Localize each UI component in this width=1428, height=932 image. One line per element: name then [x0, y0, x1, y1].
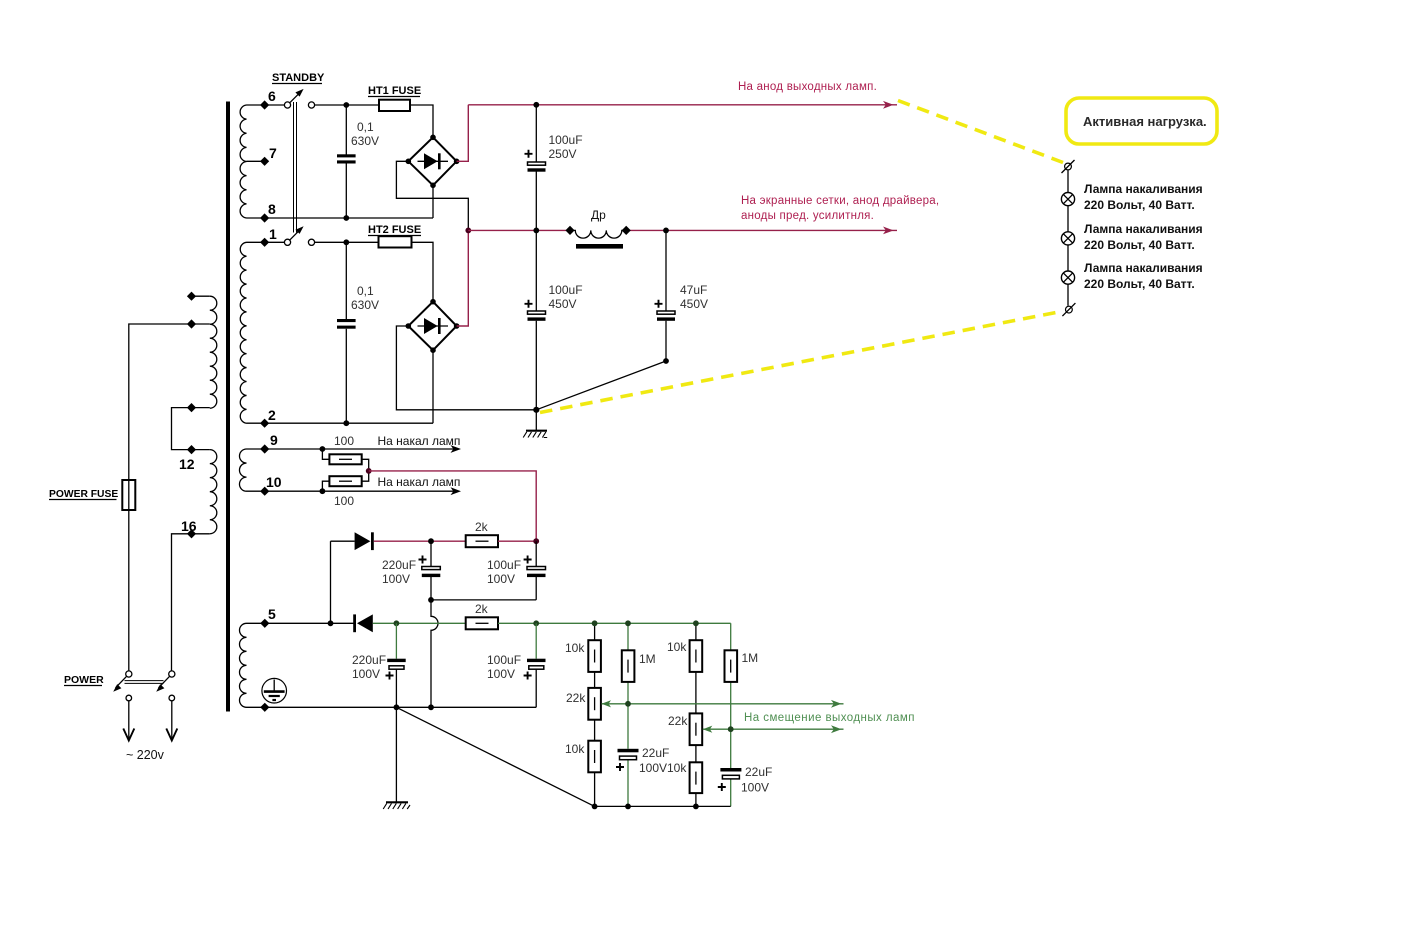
svg-text:22uF: 22uF: [642, 746, 669, 760]
resistor 2k #2: [466, 617, 498, 629]
bridge rectifier BR1: [408, 137, 456, 185]
capacitor 220uF 100V #1: [430, 541, 432, 600]
diode D2 bias rectifier (points left): [353, 614, 356, 632]
svg-text:На экранные сетки, анод драйве: На экранные сетки, анод драйвера,: [741, 195, 939, 207]
svg-text:~ 220v: ~ 220v: [126, 748, 165, 762]
svg-text:220uF: 220uF: [352, 653, 386, 667]
svg-text:10k: 10k: [667, 640, 687, 654]
svg-text:На накал ламп: На накал ламп: [378, 475, 461, 489]
svg-text:100V: 100V: [382, 572, 410, 586]
svg-text:5: 5: [268, 606, 276, 622]
wire D1 cathode to 2k (red): [374, 540, 466, 542]
node 220uF#1 top junction: [428, 538, 434, 544]
svg-text:10k: 10k: [565, 742, 585, 756]
node pin9 resistor junction: [320, 446, 326, 452]
svg-text:7: 7: [269, 145, 277, 161]
resistor 2k #1: [466, 535, 498, 547]
transformer heater winding 9-10: [239, 449, 246, 491]
svg-text:100V: 100V: [352, 667, 380, 681]
wire wiper 1 bias output (green): [602, 703, 844, 705]
svg-text:100V: 100V: [741, 781, 769, 795]
svg-text:6: 6: [268, 88, 276, 104]
lamp L1 220V 40W: [1061, 193, 1074, 206]
wire bias divider column C links: [695, 623, 697, 806]
node bus 2 left junction: [465, 228, 471, 234]
switch POWER lever 1: [116, 676, 127, 688]
wire HT bus 2 screen-grid supply (red): [468, 229, 897, 231]
svg-text:HT1 FUSE: HT1 FUSE: [368, 85, 421, 97]
node 220uF#2 junction (green): [394, 620, 400, 626]
svg-text:100V: 100V: [487, 572, 515, 586]
capacitor 100uF 100V #2: [535, 623, 537, 658]
resistor 10k #1: [588, 640, 601, 672]
wire wiper 2 bias output (green): [703, 728, 844, 730]
svg-text:2k: 2k: [475, 520, 489, 534]
node negative link junction: [428, 597, 434, 603]
wire diagonal ground to bias bottom rail: [396, 707, 594, 806]
svg-text:0,1: 0,1: [357, 284, 374, 298]
svg-text:Др: Др: [591, 208, 606, 222]
node pin 9 diamond: [260, 444, 269, 453]
wire pin 6 to standby switch: [247, 104, 285, 106]
node junction 0.1uF cap 1 top: [343, 102, 349, 108]
wire bridge 1 minus wrap to bus2 node: [396, 161, 468, 230]
wire bias rail green right part: [498, 622, 731, 624]
switch STANDBY mechanical link: [294, 102, 297, 233]
svg-text:12: 12: [179, 456, 195, 472]
node bottom rail colA: [592, 804, 598, 810]
resistor 10k #3: [588, 741, 601, 773]
wire bridge 2 minus wrap to ground node: [396, 326, 536, 410]
node diamond tap lower 12: [187, 445, 196, 454]
wire pin 7 stub: [247, 160, 265, 162]
wire HT1 fuse to bridge 1 top: [410, 105, 433, 137]
capacitor 100uF 250V: [535, 105, 537, 231]
terminal lamp chain top: [1065, 163, 1072, 170]
node pin10 resistor junction: [320, 488, 326, 494]
wire pin 5 row: [247, 622, 354, 624]
node pin 2 diamond: [260, 419, 269, 428]
fuse POWER FUSE: [122, 480, 135, 510]
terminal lamp chain bottom: [1066, 306, 1073, 313]
resistor 10k #4: [690, 762, 703, 793]
svg-text:0,1: 0,1: [357, 120, 374, 134]
svg-text:220 Вольт, 40 Ватт.: 220 Вольт, 40 Ватт.: [1084, 238, 1195, 252]
inductor Dr choke: [570, 230, 626, 238]
node junction 0.1uF cap 2 top: [343, 239, 349, 245]
wire cap negative column with hop over rail: [431, 600, 438, 707]
wire heater dc feed (red): [369, 471, 537, 541]
fuse HT1 FUSE: [379, 100, 410, 111]
svg-text:1M: 1M: [639, 652, 656, 666]
wire primary jog tap 12: [172, 408, 210, 450]
wire pin 10 row with arrow (heater): [247, 490, 456, 492]
node rail colA junction (green): [592, 620, 598, 626]
svg-text:Лампа накаливания: Лампа накаливания: [1084, 261, 1203, 275]
wire pin 1 to standby pole 2: [247, 241, 285, 243]
svg-text:100uF: 100uF: [487, 558, 521, 572]
wire bias divider column A links: [594, 623, 596, 806]
node rail colC junction (green): [693, 620, 699, 626]
wire bias rail green left part: [373, 622, 466, 624]
node pin 6 diamond: [260, 100, 269, 109]
svg-text:Лампа накаливания: Лампа накаливания: [1084, 222, 1203, 236]
switch STANDBY pole 2 lever: [290, 230, 301, 241]
wire 1M #2 column (green): [730, 623, 732, 806]
svg-text:16: 16: [181, 518, 197, 534]
capacitor 0.1uF 630V #2: [345, 242, 347, 423]
node bus2 47uF junction: [663, 228, 669, 234]
node heater dc feed junction (red): [366, 468, 372, 474]
wire yellow dashed link top: [898, 101, 1063, 163]
wire bridge 1 plus to HT bus 1 (red): [457, 105, 469, 162]
capacitor 100uF 450V: [535, 230, 537, 409]
svg-text:100uF: 100uF: [549, 133, 583, 147]
potentiometer 22k #2: [690, 713, 703, 745]
node junction 0.1uF cap 1 bottom: [343, 215, 349, 221]
wire primary top stub tap: [192, 295, 210, 297]
resistor 100 #2: [322, 471, 368, 491]
svg-text:220 Вольт, 40 Ватт.: 220 Вольт, 40 Ватт.: [1084, 198, 1195, 212]
svg-text:100: 100: [334, 434, 354, 448]
switch STANDBY pole 2 contact a: [284, 239, 290, 245]
wire standby pole1 to cap and HT1 fuse: [315, 104, 379, 106]
wire negative link row: [431, 599, 536, 601]
node bus2 100uF450V junction: [533, 228, 539, 234]
svg-text:220 Вольт, 40 Ватт.: 220 Вольт, 40 Ватт.: [1084, 277, 1195, 291]
resistor 1M #1: [622, 650, 635, 682]
transformer secondary winding 1-2: [240, 242, 246, 423]
resistor 10k #2: [690, 640, 703, 672]
node bottom rail colB: [625, 804, 631, 810]
node rail colB junction (green): [625, 620, 631, 626]
terminal mains input 1: [126, 695, 132, 701]
switch POWER pole 2 contact: [169, 671, 175, 677]
svg-text:10k: 10k: [565, 641, 585, 655]
switch POWER mechanical link: [125, 681, 164, 684]
wire yellow dashed link bottom: [540, 312, 1061, 413]
transformer secondary winding 6-7-8: [240, 105, 246, 218]
wire bridge 1 bottom to pin 8 row: [432, 185, 434, 218]
capacitor 220uF 100V #2: [395, 623, 397, 658]
switch POWER lever 2: [159, 676, 170, 688]
node diamond tap 16: [187, 529, 196, 538]
node 100uF#1 top junction (red): [533, 538, 539, 544]
transformer bias winding 5: [240, 623, 247, 707]
wire primary bottom tap 16 to power switch: [172, 534, 210, 674]
resistor 1M #2: [725, 650, 738, 682]
svg-text:220uF: 220uF: [382, 558, 416, 572]
lamp L2 220V 40W: [1061, 232, 1074, 245]
ground GND2 column: [395, 707, 397, 801]
node junction cap2 bottom: [343, 420, 349, 426]
node rail 100uF#2 junction (green): [533, 620, 539, 626]
label box Активная нагрузка: [1066, 98, 1217, 144]
svg-text:22k: 22k: [566, 691, 586, 705]
node pin 1 diamond: [260, 238, 269, 247]
wire bias bottom rail: [595, 805, 731, 807]
svg-text:22uF: 22uF: [745, 765, 772, 779]
node pin 8 diamond: [260, 213, 269, 222]
svg-text:8: 8: [268, 201, 276, 217]
node pin 5 diamond: [260, 619, 269, 628]
node bottom rail colC: [693, 804, 699, 810]
wire 2k#1 to cap junction (red): [498, 540, 536, 542]
svg-text:47uF: 47uF: [680, 283, 707, 297]
fuse HT2 FUSE: [379, 236, 412, 247]
lamp L3 220V 40W: [1061, 271, 1074, 284]
node 220uF#2 bottom junction: [394, 704, 400, 710]
svg-text:100V: 100V: [639, 761, 667, 775]
switch STANDBY pole 1 contact a: [284, 102, 290, 108]
resistor 100 #1: [322, 449, 368, 471]
capacitor 100uF 100V #1: [535, 541, 537, 600]
wire lamp chain: [1067, 170, 1069, 305]
node bus1 cap junction: [533, 102, 539, 108]
wire pin 8 row: [247, 217, 434, 219]
wire pin 9 row with arrow (heater): [247, 448, 456, 450]
svg-text:630V: 630V: [351, 134, 379, 148]
earth chassis symbol in circle: [262, 678, 287, 703]
node diamond tap upper 12: [187, 403, 196, 412]
node primary top stub diamond: [187, 292, 196, 301]
ground GND1: [535, 410, 537, 430]
svg-text:аноды пред. усилитнля.: аноды пред. усилитнля.: [741, 210, 874, 222]
capacitor 47uF 450V: [665, 230, 667, 361]
node bottom diamond: [260, 703, 269, 712]
wire D1 anode riser: [330, 541, 332, 623]
svg-text:250V: 250V: [549, 147, 577, 161]
transformer primary winding section 2: [210, 450, 217, 534]
svg-text:10k: 10k: [667, 761, 687, 775]
potentiometer 22k #1: [588, 688, 601, 720]
wire 1M #1 column (green): [627, 623, 629, 806]
svg-text:1: 1: [269, 226, 277, 242]
node D1 anode junction: [328, 620, 334, 626]
svg-text:100uF: 100uF: [549, 283, 583, 297]
svg-text:HT2 FUSE: HT2 FUSE: [368, 224, 421, 236]
capacitor 22uF 100V #1: [618, 749, 639, 753]
svg-text:630V: 630V: [351, 298, 379, 312]
node pin 10 diamond: [260, 487, 269, 496]
wire bridge 2 plus riser to bus 2 (red): [457, 230, 469, 326]
svg-text:POWER FUSE: POWER FUSE: [49, 489, 118, 500]
capacitor 22uF 100V #2: [720, 768, 741, 772]
svg-text:100uF: 100uF: [487, 653, 521, 667]
terminal mains input 2: [169, 695, 175, 701]
svg-text:2: 2: [268, 407, 276, 423]
svg-text:На смещение выходных ламп: На смещение выходных ламп: [744, 712, 915, 724]
wire standby pole2 to cap 2 and HT2 fuse: [315, 241, 379, 243]
wire HT bus 1 anode supply (red): [468, 104, 897, 106]
svg-text:450V: 450V: [549, 297, 577, 311]
bridge rectifier BR2: [408, 302, 456, 351]
svg-text:100V: 100V: [487, 667, 515, 681]
svg-text:2k: 2k: [475, 602, 489, 616]
svg-text:STANDBY: STANDBY: [272, 72, 325, 84]
svg-text:450V: 450V: [680, 297, 708, 311]
svg-text:10: 10: [266, 474, 282, 490]
switch STANDBY pole 1 lever: [290, 92, 301, 103]
node main ground junction: [533, 407, 539, 413]
switch STANDBY pole 2 contact b: [308, 239, 314, 245]
wire bridge 2 bottom to pin 2 row: [432, 350, 434, 423]
node 47uF bottom junction: [663, 358, 669, 364]
wire 47uF diagonal to ground node: [536, 361, 666, 410]
wire mains lead 2 with arrow: [171, 701, 173, 739]
diode D1 heater rectifier: [331, 540, 355, 542]
node pin 7 diamond: [260, 157, 269, 166]
switch POWER pole 1 contact: [126, 671, 132, 677]
svg-text:POWER: POWER: [64, 674, 104, 686]
transformer T1 core: [226, 102, 230, 712]
svg-text:На анод выходных ламп.: На анод выходных ламп.: [738, 81, 877, 93]
wire mains lead 1 with arrow: [128, 701, 130, 739]
svg-text:22k: 22k: [668, 714, 688, 728]
svg-text:На накал ламп: На накал ламп: [378, 434, 461, 448]
wire HT2 fuse to bridge 2 top: [412, 242, 434, 301]
wire winding 5 bottom row: [247, 706, 537, 708]
transformer primary winding section 1: [210, 296, 217, 408]
node wiper1 1M junction (green): [625, 701, 631, 707]
wire primary mains tap to power fuse column: [129, 324, 210, 674]
svg-text:Активная нагрузка.: Активная нагрузка.: [1083, 114, 1207, 129]
svg-text:1M: 1M: [742, 651, 759, 665]
wire pin 2 row: [247, 422, 434, 424]
node wiper2 1M junction (green): [728, 726, 734, 732]
svg-text:9: 9: [270, 432, 278, 448]
svg-text:100: 100: [334, 494, 354, 508]
node cap column bottom junction: [428, 704, 434, 710]
svg-text:Лампа накаливания: Лампа накаливания: [1084, 182, 1203, 196]
capacitor 0.1uF 630V #1: [345, 105, 347, 218]
switch STANDBY pole 1 contact b: [308, 102, 314, 108]
node primary mains tap diamond: [187, 319, 196, 328]
